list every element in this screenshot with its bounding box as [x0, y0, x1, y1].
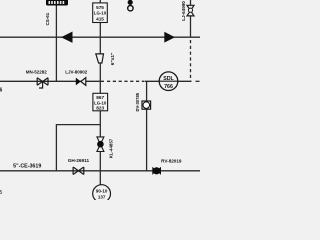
- instrument SDL-766 bubble: [159, 72, 178, 91]
- instrument box LG-10 upper (575/415): [93, 3, 108, 23]
- valve RV-82019 (ball, filled): [152, 167, 161, 175]
- label MN-52282: [26, 69, 48, 74]
- svg-text:5: 5: [0, 190, 3, 196]
- label 5"-CE-3619 line tag: [13, 164, 41, 170]
- label RV-82019: [161, 158, 182, 163]
- svg-text:LG-10: LG-10: [94, 11, 107, 16]
- wire V5 dashed signal down to H2: [190, 40, 192, 81]
- valve KL-44857 (vertical ball): [97, 137, 104, 152]
- wire H2 dash at right edge: [196, 80, 201, 82]
- svg-text:867: 867: [96, 95, 104, 100]
- label GH-26911: [68, 158, 90, 163]
- instrument bubble 90-10/137: [93, 185, 111, 203]
- svg-text:575: 575: [96, 5, 104, 10]
- svg-text:GH-26911: GH-26911: [68, 158, 90, 163]
- control valve DV-30785 (square with circle): [142, 101, 151, 109]
- label 6"x1": [110, 53, 116, 66]
- svg-text:CS-61: CS-61: [45, 12, 50, 25]
- svg-text:6"x1": 6"x1": [110, 53, 116, 66]
- svg-text:DV-30785: DV-30785: [135, 92, 140, 111]
- reducer 6"x1": [96, 54, 104, 63]
- svg-text:415: 415: [96, 17, 104, 22]
- svg-text:SDL: SDL: [163, 76, 174, 82]
- svg-text:LJV-80902: LJV-80902: [65, 69, 88, 74]
- svg-text:90-10: 90-10: [96, 188, 108, 193]
- svg-text:MN-52282: MN-52282: [26, 69, 48, 74]
- svg-text:6: 6: [0, 88, 3, 94]
- node faint stub at bottom left edge: [0, 190, 3, 196]
- wire V3 DV branch x=146.6: [146, 81, 148, 101]
- flow arrow right on H1: [164, 32, 175, 43]
- svg-text:137: 137: [98, 195, 106, 200]
- label LJV-80902: [65, 69, 88, 74]
- svg-text:5"-CE-3619: 5"-CE-3619: [13, 164, 41, 170]
- wire V1 CS-61 riser x=56.4: [55, 0, 57, 81]
- svg-text:LJ-64990: LJ-64990: [181, 1, 186, 21]
- svg-text:823: 823: [96, 106, 104, 111]
- valve LJ-64990 (vertical): [187, 5, 194, 16]
- valve MN-52282 (gate): [37, 78, 48, 88]
- svg-text:766: 766: [164, 84, 173, 90]
- svg-text:KL-44857: KL-44857: [108, 138, 113, 158]
- svg-text:RV-82019: RV-82019: [161, 158, 182, 163]
- label KL-44857: [108, 138, 113, 158]
- flow arrow left on H1: [61, 32, 73, 43]
- wire V5 right riser x=190.5: [190, 0, 192, 5]
- wire H2 pipe y=81 solid left section: [0, 80, 104, 82]
- valve GH-26911 (gate): [73, 167, 84, 175]
- svg-text:LG-10: LG-10: [94, 100, 107, 105]
- node CS-61 label: [45, 12, 50, 25]
- wire H2 dashed signal section: [107, 80, 144, 82]
- label LJ-64990: [181, 1, 186, 21]
- wire H4 bottom pipe y=170.8: [0, 170, 200, 172]
- label DV-30785: [135, 92, 140, 111]
- wire H2 solid section to SDL: [145, 80, 192, 82]
- wire H1 main header pipe y=37: [0, 36, 200, 38]
- vent stack circles: [128, 0, 133, 5]
- node stub label 6 at left edge: [0, 88, 3, 94]
- valve LJV-80902 (check valve): [76, 78, 86, 86]
- wire H3 branch pipe y=124.6: [56, 125, 100, 171]
- tag box top (inverse label): [46, 0, 68, 6]
- wire V2 center riser x=100.3: [99, 0, 101, 54]
- instrument box LG-10 lower (867/823): [93, 93, 108, 111]
